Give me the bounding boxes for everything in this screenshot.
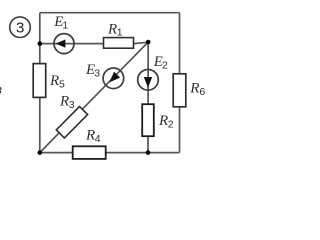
svg-text:2: 2 [162,59,168,71]
resistor R1 [104,22,134,49]
resistor R4 [73,128,106,159]
svg-text:4: 4 [95,133,101,145]
node junction top-right of diagonal [146,40,151,45]
svg-text:R: R [85,128,95,144]
svg-text:5: 5 [59,78,65,90]
label circled 3 [10,17,31,38]
svg-text:R: R [49,73,59,89]
resistor R2 [142,104,174,136]
wire bottom [40,152,180,154]
svg-text:6: 6 [199,86,205,98]
svg-text:2: 2 [168,118,174,130]
wire right lower [179,107,181,153]
node junction bottom-left [38,150,43,155]
wire left [39,13,41,153]
svg-text:з: з [0,82,2,98]
svg-text:1: 1 [62,19,68,31]
resistor R5 [33,64,65,98]
svg-text:3: 3 [16,20,24,37]
emf source E3 [85,62,124,89]
svg-text:R: R [158,113,168,129]
svg-text:R: R [107,22,117,38]
wire right upper [179,13,181,74]
wire E2-R2 branch [147,42,149,153]
svg-text:3: 3 [94,67,100,79]
wire middle horizontal E1-R1 [40,42,148,43]
node junction left [38,41,43,46]
node junction bottom R2 [146,150,151,155]
svg-text:R: R [59,94,69,110]
resistor R3 [56,94,87,138]
emf source E2 [138,54,168,90]
resistor R6 [173,74,205,107]
svg-text:3: 3 [69,99,75,111]
wire diagonal R3-E3 [40,42,148,153]
wire top [40,12,180,14]
svg-text:R: R [189,81,199,97]
emf source E1 [53,14,74,54]
svg-text:1: 1 [117,26,123,38]
